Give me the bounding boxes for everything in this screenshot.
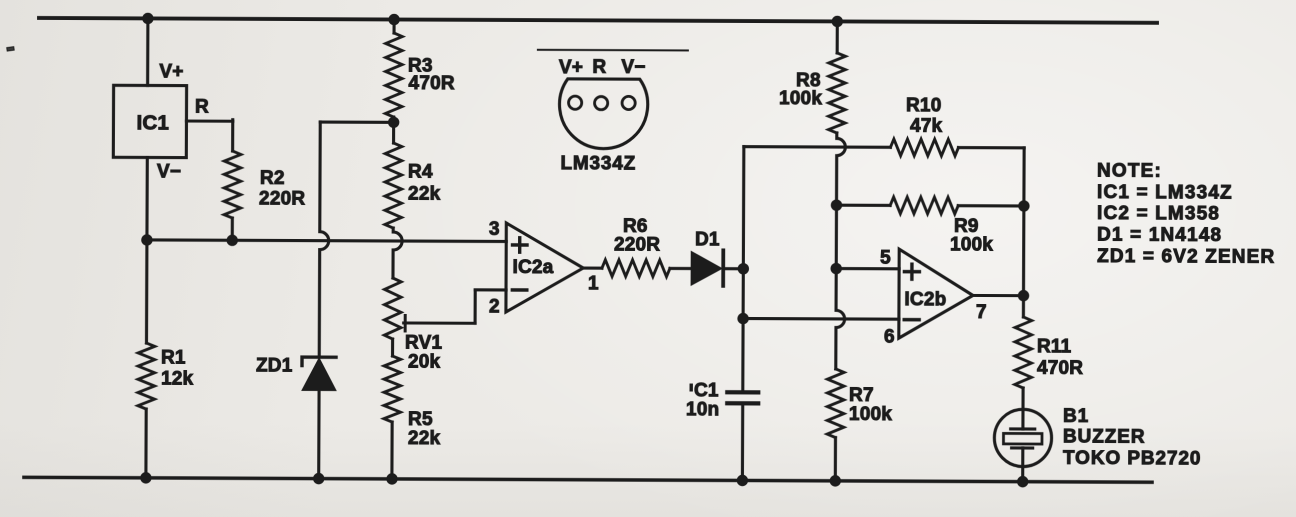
junction bottom rail / R5 [386,473,397,484]
wire R9 right lead [958,204,1024,207]
wire RV1 wiper to IC2a pin 2 (step) [404,321,475,324]
svg-text:B1: B1 [1063,406,1089,427]
wire IC1 V- lead to mid rail [145,157,148,239]
buzzer B1 top electrode bar [1011,427,1035,430]
wire buzzer to bottom rail [1021,448,1024,482]
svg-text:100k: 100k [950,234,993,255]
wire R4 to RV1 (hops over mid rail) [393,228,402,278]
svg-text:D1 = 1N4148: D1 = 1N4148 [1097,225,1222,247]
svg-text:R11: R11 [1037,336,1072,357]
wire IC1 V+ lead [146,18,149,85]
resistor R3 470R [385,33,402,117]
wire ZD1 column (hops over mid rail) [319,122,329,357]
resistor R2 220R [224,151,241,218]
junction output column / R9 [1018,200,1029,211]
svg-text:100k: 100k [779,88,822,109]
svg-text:6: 6 [884,326,895,347]
zener diode ZD1 cathode bar [302,357,336,366]
wire IC1 R pin to R2 top [186,119,232,122]
wire R9 left lead [836,204,890,207]
svg-text:IC2 = LM358: IC2 = LM358 [1097,203,1220,225]
junction R8 column / IC2b pin 5 [830,263,841,274]
op-amp IC2b triangle [899,249,973,338]
buzzer B1 piezo element rectangle [1003,433,1042,444]
resistor R1 12k [138,343,155,409]
junction bottom rail / R1 [140,472,151,483]
svg-text:7: 7 [976,302,987,323]
junction R3/R4/ZD1 branch [388,117,399,128]
resistor R8 100k [829,53,846,133]
svg-text:47k: 47k [910,115,943,136]
svg-text:3: 3 [489,219,500,240]
svg-text:R: R [592,57,606,78]
svg-text:R4: R4 [408,161,433,182]
LM334Z pin hole V+ [569,96,582,109]
resistor R11 470R [1015,317,1032,388]
svg-text:R1: R1 [161,348,186,369]
wire R2 to mid rail [231,218,234,240]
svg-text:V−: V− [157,161,181,182]
wire R1 to bottom rail [144,409,147,478]
op-amp IC2a plus input symbol [513,243,527,246]
resistor R4 22k [385,143,402,228]
junction bottom rail / R7 [830,475,841,486]
svg-text:R5: R5 [408,409,433,430]
wire R11 to buzzer [1021,388,1024,429]
junction top rail / IC1 V+ lead [142,13,153,24]
potentiometer RV1 track [384,278,401,339]
op-amp IC2b plus input symbol [904,270,919,273]
resistor R5 22k [384,356,401,422]
buzzer B1 bottom electrode bar [1012,446,1033,449]
scan speck (edge of page) [7,47,14,51]
svg-text:470R: 470R [1037,358,1083,379]
separator line above LM334Z pinout [538,49,688,52]
junction bottom rail / C1 [737,475,748,486]
wire D1 cathode to node A [723,267,743,270]
wire R8 column down (hops over feedback wire and pin6 wire) [836,133,846,369]
svg-text:BUZZER: BUZZER [1063,427,1146,448]
wire C1 to bottom rail [741,405,744,480]
resistor R7 100k [827,369,844,438]
svg-text:V−: V− [621,57,645,78]
wire R7 to bottom rail [834,438,837,481]
wire IC2b pin 5 [836,267,899,270]
svg-text:IC1: IC1 [137,111,170,134]
wire R3/R4 junction to ZD1 top [320,120,393,123]
svg-text:20k: 20k [408,351,441,372]
svg-text:22k: 22k [408,183,441,204]
wire RV1 to R5 [391,339,394,356]
svg-text:R2: R2 [260,168,285,189]
svg-text:ZD1: ZD1 [256,356,293,377]
wire ZD1 to bottom rail [317,390,320,478]
svg-text:RV1: RV1 [405,332,443,353]
svg-text:12k: 12k [161,369,194,390]
wire node A column (feedback node down to C1) [743,147,744,392]
junction output column / IC2b pin 7 [1018,290,1029,301]
svg-text:V+: V+ [159,62,183,83]
wire R10 to output column [958,146,1024,149]
junction mid rail / IC1 V- [141,234,152,245]
svg-text:5: 5 [880,248,891,269]
svg-text:NOTE:: NOTE: [1097,160,1162,181]
wire output column (R10 corner to R11) [1022,148,1026,317]
svg-text:100k: 100k [849,404,892,425]
diode D1 cathode bar [721,250,725,285]
svg-text:ZD1 = 6V2 ZENER: ZD1 = 6V2 ZENER [1097,246,1275,268]
LM334Z package outline (TO-92 bottom view) [559,79,648,149]
wire IC2b output pin 7 [973,294,1023,297]
junction node A / IC2b pin 6 branch [737,313,748,324]
resistor R9 100k [890,197,958,214]
wire bottom 0V rail [24,477,1152,482]
svg-text:R7: R7 [849,385,874,406]
junction node A / D1 [738,263,749,274]
zener diode ZD1 triangle [302,359,335,391]
junction top rail / R3 [388,14,399,25]
op-amp IC2a triangle [506,223,583,312]
junction top rail / R8 [832,16,843,27]
svg-text:220R: 220R [259,189,305,210]
svg-text:V+: V+ [559,57,583,78]
wire top rail to R3 [392,20,395,33]
wire mid rail (IC1 V- node to IC2a pin 3) [147,240,506,242]
svg-text:2: 2 [489,297,500,318]
IC1 box [113,85,186,157]
junction bottom rail / buzzer B1 [1017,476,1028,487]
wire node A to R10 (top feedback wire) [744,145,891,149]
svg-text:D1: D1 [695,229,720,250]
resistor R10 47k [890,139,958,156]
capacitor C1 plates [727,390,758,394]
wire R5 to bottom rail [390,422,393,479]
wire IC2b pin 6 (from node A) [743,317,899,321]
svg-text:C1: C1 [694,380,719,401]
LM334Z pin hole R [595,97,608,110]
wire R3 to R4 [392,117,395,143]
junction bottom rail / ZD1 [313,473,324,484]
svg-text:IC1 = LM334Z: IC1 = LM334Z [1097,182,1233,204]
svg-text:1: 1 [588,273,599,294]
svg-text:470R: 470R [408,73,454,94]
svg-text:LM334Z: LM334Z [560,153,636,174]
wire top rail to R8 [836,21,839,52]
op-amp IC2a minus input symbol [512,288,526,291]
svg-text:TOKO PB2720: TOKO PB2720 [1063,448,1201,470]
svg-text:22k: 22k [408,428,441,449]
wire IC2a output pin 1 [583,267,602,270]
diode D1 triangle [691,252,721,285]
resistor R6 220R [602,260,670,277]
op-amp IC2b minus input symbol [904,318,919,321]
LM334Z pin hole V- [622,96,635,109]
svg-text:R: R [195,97,209,118]
svg-text:10n: 10n [686,399,719,420]
junction R8 column / R9 left [831,199,842,210]
svg-text:R10: R10 [906,95,942,116]
svg-text:IC2a: IC2a [512,257,553,278]
wire R6 to D1 anode [670,267,692,270]
svg-text:IC2b: IC2b [904,289,946,310]
junction mid rail / R2 [227,235,238,246]
wire top supply rail [39,18,1157,23]
wire mid rail node down to R1 [145,240,149,343]
potentiometer RV1 wiper tick [404,315,407,330]
svg-text:220R: 220R [614,234,660,255]
buzzer B1 circle [994,409,1051,466]
